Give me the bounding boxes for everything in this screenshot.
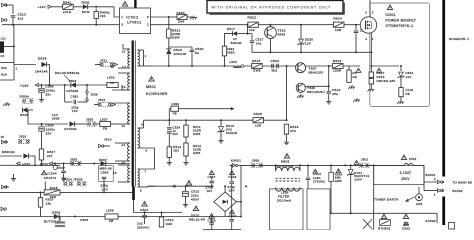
svg-text:FB: FB bbox=[173, 111, 177, 115]
svg-text:R522: R522 bbox=[248, 15, 257, 19]
transformer core top stub (thick) bbox=[134, 0, 136, 8]
wire bbox=[120, 123, 130, 125]
svg-text:C523: C523 bbox=[271, 59, 280, 63]
svg-text:1: 1 bbox=[145, 54, 147, 58]
wire bbox=[112, 89, 130, 91]
svg-text:KBL10,4R: KBL10,4R bbox=[189, 218, 206, 222]
wire mosfet source down bbox=[370, 33, 372, 66]
warning triangle D516 bbox=[193, 206, 198, 211]
ground bbox=[286, 141, 288, 143]
svg-text:1: 1 bbox=[372, 37, 374, 41]
svg-text:10: 10 bbox=[122, 124, 126, 128]
connector arrow +14V bbox=[48, 5, 52, 8]
connector plug left edge lower bbox=[2, 185, 5, 189]
electrolytic capacitor C505 1000u 25V bbox=[41, 124, 43, 126]
wire bbox=[187, 16, 193, 18]
svg-text:SCREIPIN II: SCREIPIN II bbox=[449, 37, 469, 41]
node R4501 junction bbox=[95, 6, 97, 8]
wire bbox=[14, 64, 36, 66]
wire bbox=[436, 213, 438, 223]
svg-text:7: 7 bbox=[145, 170, 147, 174]
svg-text:1N4148: 1N4148 bbox=[174, 52, 187, 56]
wire primary return bbox=[373, 165, 375, 230]
wire bbox=[148, 185, 155, 188]
svg-text:D517: D517 bbox=[227, 27, 235, 31]
svg-text:1k2: 1k2 bbox=[249, 28, 255, 32]
chassis ground bbox=[6, 102, 8, 104]
warning triangle T501 bbox=[149, 76, 154, 81]
svg-text:2A4: 2A4 bbox=[178, 20, 184, 24]
hot rail y186.2 bbox=[148, 185, 214, 187]
resistor R513 1R2 bbox=[167, 147, 171, 158]
ground bbox=[185, 161, 187, 163]
wire bridge bottom stub bbox=[224, 212, 226, 217]
svg-text:LPV8C1: LPV8C1 bbox=[127, 21, 142, 25]
wire y213.3 bbox=[331, 212, 437, 214]
wire y163.5 row bbox=[52, 163, 100, 165]
wire bbox=[138, 65, 152, 67]
resistor R4501 bbox=[94, 12, 98, 19]
svg-text:8: 8 bbox=[146, 149, 148, 153]
svg-text:2: 2 bbox=[147, 22, 149, 26]
svg-text:12V: 12V bbox=[305, 41, 311, 45]
zener diode D520 12V bbox=[300, 24, 302, 26]
wire bbox=[191, 52, 193, 66]
transistor T516 bbox=[265, 27, 277, 39]
svg-text:1N4148: 1N4148 bbox=[35, 70, 48, 74]
svg-text:1M0: 1M0 bbox=[166, 222, 173, 226]
svg-text:500mW: 500mW bbox=[231, 41, 242, 45]
zener diode D521 13V bbox=[400, 66, 402, 71]
ferrite bead L518 FB bbox=[399, 88, 403, 97]
svg-text:500mW: 500mW bbox=[226, 131, 237, 135]
svg-text:L503: L503 bbox=[171, 102, 179, 106]
node bbox=[328, 65, 330, 67]
wire rail to mosfet gate bbox=[356, 24, 360, 26]
svg-text:J5: J5 bbox=[1, 135, 5, 139]
node bbox=[286, 65, 288, 67]
svg-text:13k: 13k bbox=[46, 202, 52, 206]
wire bbox=[60, 191, 133, 193]
svg-text:2: 2 bbox=[434, 177, 436, 181]
wire T516 emitter bbox=[270, 39, 272, 53]
capacitor C524 1n 2kV stack bbox=[168, 119, 170, 121]
line filter core dashes bbox=[276, 177, 300, 179]
wire bbox=[88, 6, 114, 8]
warning triangle IC501 bbox=[387, 5, 392, 10]
wire bbox=[179, 108, 231, 110]
svg-text:2k7: 2k7 bbox=[47, 154, 53, 158]
svg-text:u8a: u8a bbox=[332, 92, 338, 96]
resistor R507 2k7 bbox=[39, 149, 43, 160]
chassis ground bbox=[400, 100, 402, 102]
mains rail y165.4 bbox=[230, 164, 233, 166]
jumper J515 bbox=[88, 123, 90, 125]
svg-text:13: 13 bbox=[122, 85, 126, 89]
svg-text:GW5: GW5 bbox=[193, 151, 201, 155]
wire bbox=[95, 9, 97, 12]
svg-text:R528: R528 bbox=[254, 112, 263, 116]
svg-text:IC501: IC501 bbox=[386, 13, 396, 17]
connector arrow +14V out bbox=[35, 83, 39, 86]
svg-text:15: 15 bbox=[122, 161, 126, 165]
transformer aux winding (pin 10) bbox=[128, 103, 130, 124]
bridge cap C529 bbox=[209, 214, 214, 219]
svg-text:470: 470 bbox=[290, 129, 296, 133]
wire bbox=[286, 134, 288, 141]
resistor R510 1M0 bbox=[161, 213, 163, 218]
ground bbox=[328, 100, 330, 102]
svg-text:10R: 10R bbox=[335, 28, 342, 32]
svg-text:GK: GK bbox=[353, 75, 358, 79]
wire IC502 pin6 bbox=[151, 16, 169, 18]
resistor R527 bbox=[370, 66, 372, 72]
svg-text:0504: 0504 bbox=[69, 79, 77, 83]
plug to main board 2 bbox=[438, 189, 441, 193]
chassis ground 2 bbox=[356, 98, 358, 100]
svg-text:RTH501: RTH501 bbox=[378, 227, 391, 230]
right module box bbox=[307, 189, 330, 230]
wire bbox=[115, 160, 130, 162]
svg-text:TUNER EARTH: TUNER EARTH bbox=[374, 198, 399, 202]
node bbox=[64, 84, 66, 86]
wire bbox=[118, 164, 130, 166]
svg-text:FB: FB bbox=[109, 219, 113, 223]
chassis ground bbox=[300, 94, 302, 96]
electrolytic capacitor C504 1000u 25v bbox=[39, 88, 45, 92]
svg-text:11: 11 bbox=[122, 50, 126, 54]
svg-text:14: 14 bbox=[122, 143, 126, 147]
fuse box outline bbox=[374, 165, 424, 184]
svg-text:BCW: BCW bbox=[82, 10, 90, 14]
capacitor C519 bbox=[328, 66, 330, 91]
svg-text:C507: C507 bbox=[57, 166, 65, 170]
diode D519b stack bbox=[369, 79, 373, 85]
resistor R511 220R bbox=[185, 119, 187, 121]
ground bbox=[41, 98, 43, 100]
svg-text:M501: M501 bbox=[146, 85, 156, 89]
terminal circle bbox=[111, 65, 114, 68]
wire from mains rail bbox=[231, 165, 233, 180]
svg-text:9: 9 bbox=[141, 122, 143, 126]
svg-text:J535: J535 bbox=[86, 118, 94, 122]
transistor T507 bbox=[296, 63, 306, 73]
node bbox=[13, 46, 15, 48]
wire bbox=[118, 181, 130, 183]
varistor PV01 bbox=[350, 165, 352, 169]
svg-text:1: 1 bbox=[121, 15, 123, 19]
svg-text:1C1: 1C1 bbox=[1, 38, 7, 41]
transformer primary winding (pins 11-13) bbox=[128, 49, 130, 68]
tuner earth arrow bbox=[406, 197, 415, 202]
svg-text:1KV: 1KV bbox=[102, 188, 109, 192]
svg-text:6100010BR: 6100010BR bbox=[146, 92, 168, 96]
wire to IC502 pin1 bbox=[114, 7, 120, 17]
bus bar (bottom segment) bbox=[442, 197, 445, 226]
node source bus bbox=[370, 51, 372, 53]
wire bbox=[168, 55, 170, 67]
resistor R512 220R bbox=[184, 143, 188, 156]
svg-text:GW5: GW5 bbox=[253, 69, 261, 73]
svg-text:KA502: KA502 bbox=[426, 219, 436, 223]
svg-text:C508: C508 bbox=[80, 218, 88, 222]
svg-text:STRW6765?D-1: STRW6765?D-1 bbox=[386, 24, 414, 28]
svg-text:+14V: +14V bbox=[38, 5, 47, 9]
diode D515 MBR131 bbox=[23, 153, 28, 158]
transformer secondary winding pins 9-8 bbox=[138, 128, 140, 148]
wire bbox=[13, 25, 15, 63]
svg-text:D61JW-KBB103: D61JW-KBB103 bbox=[55, 71, 80, 75]
svg-text:AN2: AN2 bbox=[416, 202, 423, 206]
transformer winding pin 16 bbox=[128, 165, 130, 182]
svg-text:C518: C518 bbox=[228, 175, 236, 179]
wire bbox=[75, 123, 88, 125]
chassis ground bbox=[351, 85, 353, 87]
wire bbox=[118, 67, 130, 69]
wire bbox=[111, 123, 120, 125]
svg-text:2: 2 bbox=[372, 11, 374, 15]
svg-text:L502: L502 bbox=[230, 60, 238, 64]
svg-text:R524: R524 bbox=[334, 17, 343, 21]
svg-text:1R2: 1R2 bbox=[173, 149, 179, 153]
wire bbox=[44, 182, 46, 190]
transistor IC504 bbox=[53, 165, 57, 169]
wire bbox=[169, 46, 192, 48]
resistor R529 470 bbox=[284, 124, 288, 134]
wire bbox=[123, 48, 130, 50]
transformer core thin bar bbox=[134, 41, 136, 187]
main low-voltage rail y165.3 bbox=[13, 164, 60, 166]
svg-text:5k2: 5k2 bbox=[272, 69, 278, 73]
wire bbox=[115, 142, 130, 144]
svg-text:N33R: N33R bbox=[227, 51, 235, 55]
svg-text:2kV: 2kV bbox=[173, 132, 179, 136]
wire bbox=[54, 164, 56, 166]
transformer secondary winding pins 7-6 bbox=[138, 169, 140, 187]
svg-text:450V: 450V bbox=[191, 198, 199, 202]
svg-text:GW5: GW5 bbox=[335, 179, 342, 183]
capacitor C512 100n 275VAC X2 bbox=[307, 165, 309, 177]
svg-text:16: 16 bbox=[113, 171, 117, 175]
capacitor C532 bbox=[403, 214, 408, 219]
capacitor C508 pair bbox=[74, 216, 76, 218]
node F520 junction bbox=[168, 16, 170, 18]
svg-text:KA501: KA501 bbox=[231, 159, 241, 163]
svg-text:L506: L506 bbox=[106, 209, 114, 213]
svg-text:D8C181SU: D8C181SU bbox=[307, 90, 325, 94]
svg-text:6: 6 bbox=[147, 15, 149, 19]
off-page arrow bbox=[231, 107, 235, 110]
resistor R537 13k bbox=[40, 192, 42, 197]
capacitor C513 2n2 bbox=[11, 15, 16, 17]
wire bbox=[168, 17, 170, 29]
svg-text:221R: 221R bbox=[63, 10, 72, 14]
wire bbox=[138, 186, 149, 188]
svg-text:J502: J502 bbox=[361, 158, 368, 162]
wire x28 down bbox=[27, 110, 29, 114]
wire bbox=[28, 109, 33, 111]
shield box D507/C566 bbox=[99, 166, 114, 182]
svg-text:81A: 81A bbox=[1, 73, 7, 77]
notice banner box bbox=[207, 1, 343, 14]
capacitor C516 bbox=[355, 25, 357, 30]
power module IC501 outline box bbox=[370, 3, 430, 107]
svg-text:F501: F501 bbox=[409, 157, 417, 161]
svg-text:3.15AT: 3.15AT bbox=[400, 171, 412, 175]
degauss posistor bbox=[363, 219, 372, 229]
wire series link bbox=[138, 148, 155, 169]
wire bbox=[169, 16, 177, 18]
svg-text:250V: 250V bbox=[401, 177, 410, 181]
svg-text:3: 3 bbox=[121, 22, 123, 26]
svg-text:R515: R515 bbox=[252, 59, 261, 63]
diode D518 1N4148 bbox=[166, 49, 171, 54]
svg-text:18V: 18V bbox=[207, 189, 213, 193]
svg-text:J516: J516 bbox=[19, 135, 27, 139]
terminal on rail bbox=[241, 65, 244, 68]
electrolytic capacitor C515 220u 450V bbox=[185, 185, 187, 187]
svg-text:16V: 16V bbox=[72, 109, 78, 113]
svg-text:WITH ORIGINAL OR APPROVED COMP: WITH ORIGINAL OR APPROVED COMPONENT ONLY bbox=[212, 6, 332, 10]
svg-text:L532: L532 bbox=[107, 76, 115, 80]
svg-text:8845: 8845 bbox=[278, 33, 286, 37]
wire y124 row bbox=[28, 123, 68, 125]
connector J532 bbox=[2, 18, 5, 22]
svg-text:6: 6 bbox=[140, 189, 142, 193]
svg-text:8BA015V: 8BA015V bbox=[309, 70, 325, 74]
op-amp IC502 LPV8C1 control IC box bbox=[120, 8, 151, 34]
op-amp IC503 box at left edge bbox=[0, 63, 14, 81]
svg-text:12R: 12R bbox=[255, 124, 262, 128]
transformer primary winding 2 bbox=[128, 73, 130, 90]
svg-text:5A: 5A bbox=[195, 51, 200, 55]
wire secondary rail bbox=[144, 119, 254, 121]
svg-text:100V: 100V bbox=[354, 178, 362, 182]
ground bbox=[168, 161, 170, 163]
svg-text:275VAC: 275VAC bbox=[313, 180, 325, 184]
ground bbox=[220, 139, 222, 141]
transformer core bottom stub (thick) bbox=[132, 187, 135, 201]
tuner earth terminal AN2 bbox=[416, 194, 423, 201]
svg-text:15u: 15u bbox=[256, 41, 262, 45]
ground bbox=[63, 177, 65, 179]
svg-text:+50V: +50V bbox=[40, 162, 49, 166]
wire bbox=[95, 19, 97, 25]
svg-text:D538: D538 bbox=[38, 57, 47, 61]
bridge cap C510 bbox=[229, 210, 234, 214]
ground bbox=[185, 203, 187, 205]
wire bbox=[286, 66, 288, 93]
bottom rail y216.5 bbox=[0, 216, 214, 218]
svg-text:J26: J26 bbox=[100, 14, 106, 18]
svg-text:J512: J512 bbox=[98, 98, 106, 102]
svg-text:C563: C563 bbox=[71, 95, 79, 99]
svg-text:25v: 25v bbox=[45, 93, 51, 97]
main rail y66 from transformer bbox=[151, 65, 360, 67]
capacitor C524 2n2 250VAC bbox=[142, 201, 147, 206]
svg-text:JP504: JP504 bbox=[19, 95, 29, 99]
diode D529 bbox=[22, 107, 27, 112]
wire bbox=[52, 6, 63, 8]
wire inside module bbox=[371, 65, 399, 67]
svg-text:2n2: 2n2 bbox=[18, 17, 24, 21]
wire output vertical bbox=[240, 165, 242, 216]
wire bbox=[264, 119, 287, 121]
thermistor RTH501 bbox=[381, 214, 386, 219]
wire bbox=[114, 102, 130, 104]
svg-text:2505: 2505 bbox=[52, 117, 60, 121]
svg-text:GW5: GW5 bbox=[193, 132, 201, 136]
bridge rectifier D516 diamond bbox=[214, 192, 237, 212]
svg-text:D629: D629 bbox=[20, 113, 28, 117]
svg-text:503: 503 bbox=[1, 66, 7, 70]
chassis ground bbox=[193, 16, 195, 18]
svg-text:FB: FB bbox=[111, 81, 115, 85]
node C513/rail junction bbox=[12, 24, 14, 26]
svg-text:C2: C2 bbox=[1, 55, 5, 58]
wire bbox=[191, 47, 193, 49]
wire bbox=[168, 38, 170, 49]
wire bbox=[73, 6, 82, 8]
warning triangle M502 bbox=[284, 153, 289, 158]
svg-text:UF5404: UF5404 bbox=[64, 127, 77, 131]
capacitor C517 15u bbox=[248, 33, 253, 35]
svg-text:4N18: 4N18 bbox=[50, 186, 58, 190]
fuse F501 3.15AT bbox=[401, 155, 406, 160]
svg-text:JP524 JP505: JP524 JP505 bbox=[62, 178, 83, 182]
wire bbox=[118, 72, 130, 74]
wire bottom short rail bbox=[203, 229, 241, 231]
transistor T528 bbox=[296, 83, 305, 92]
svg-text:J506: J506 bbox=[252, 159, 260, 163]
svg-text:IC502: IC502 bbox=[126, 15, 139, 19]
wire mains to fuse bbox=[344, 164, 346, 166]
transformer winding pins 14-15 bbox=[128, 143, 130, 161]
chassis ground bbox=[370, 88, 372, 90]
svg-text:L507: L507 bbox=[100, 118, 108, 122]
resistor R526 stack bbox=[348, 66, 350, 70]
warning triangle R526 bbox=[356, 68, 361, 72]
connector plug left edge bottom bbox=[1, 207, 4, 211]
line filter bottom winding bbox=[276, 187, 300, 191]
svg-text:C566: C566 bbox=[101, 171, 109, 175]
wire bridge top stub bbox=[224, 186, 226, 192]
svg-text:AP1574: AP1574 bbox=[44, 176, 57, 180]
wire up to T528 bbox=[286, 93, 288, 120]
svg-text:POWER MOSFET: POWER MOSFET bbox=[386, 19, 417, 23]
diode D505 UF5404 bbox=[69, 121, 74, 126]
bridge cap C527 370p bbox=[209, 170, 214, 174]
svg-text:BA502: BA502 bbox=[453, 189, 463, 193]
svg-text:J511: J511 bbox=[100, 59, 107, 63]
wire bbox=[47, 64, 49, 66]
wire mosfet drain up bbox=[369, 0, 371, 17]
wire bottom bbox=[133, 200, 135, 213]
transformer T501 core thick bar bbox=[132, 41, 134, 187]
resistor R534 3M3 box bbox=[330, 164, 332, 166]
ferrite bead L503 FB row bbox=[168, 109, 170, 121]
connector J531 top-left bbox=[2, 3, 5, 7]
wire bbox=[122, 44, 124, 49]
svg-text:4: 4 bbox=[365, 37, 367, 41]
plug to main board 1 bbox=[438, 180, 441, 184]
wire main rail to IC502 pin3 bbox=[2, 24, 120, 26]
wire bbox=[237, 33, 247, 35]
svg-text:TO MAIN BD: TO MAIN BD bbox=[453, 181, 473, 185]
emitter ground bus y52.3 bbox=[252, 51, 371, 53]
svg-text:JR2E: JR2E bbox=[81, 0, 90, 4]
line filter L505 top winding bbox=[275, 165, 277, 171]
